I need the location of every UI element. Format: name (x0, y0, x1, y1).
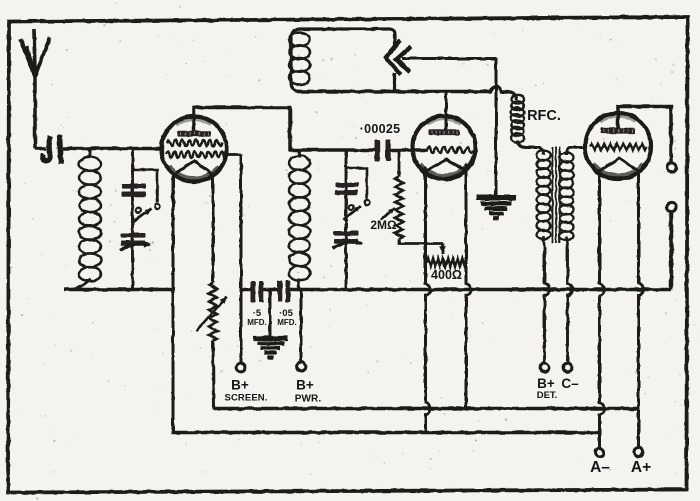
svg-text:MFD.: MFD. (247, 318, 267, 327)
svg-text:C–: C– (561, 376, 579, 391)
svg-text:B+: B+ (231, 378, 249, 393)
svg-text:·00025: ·00025 (360, 122, 401, 136)
svg-text:A–: A– (590, 459, 610, 476)
svg-text:RFC.: RFC. (527, 108, 561, 124)
svg-text:B+: B+ (537, 376, 555, 391)
svg-text:B+: B+ (296, 378, 314, 393)
svg-text:SCREEN.: SCREEN. (225, 393, 268, 404)
svg-text:PWR.: PWR. (295, 394, 322, 405)
svg-text:DET.: DET. (537, 390, 558, 401)
svg-text:2MΩ: 2MΩ (370, 218, 397, 232)
svg-text:400Ω: 400Ω (431, 268, 462, 282)
svg-text:MFD.: MFD. (277, 318, 297, 327)
svg-text:A+: A+ (631, 459, 651, 476)
